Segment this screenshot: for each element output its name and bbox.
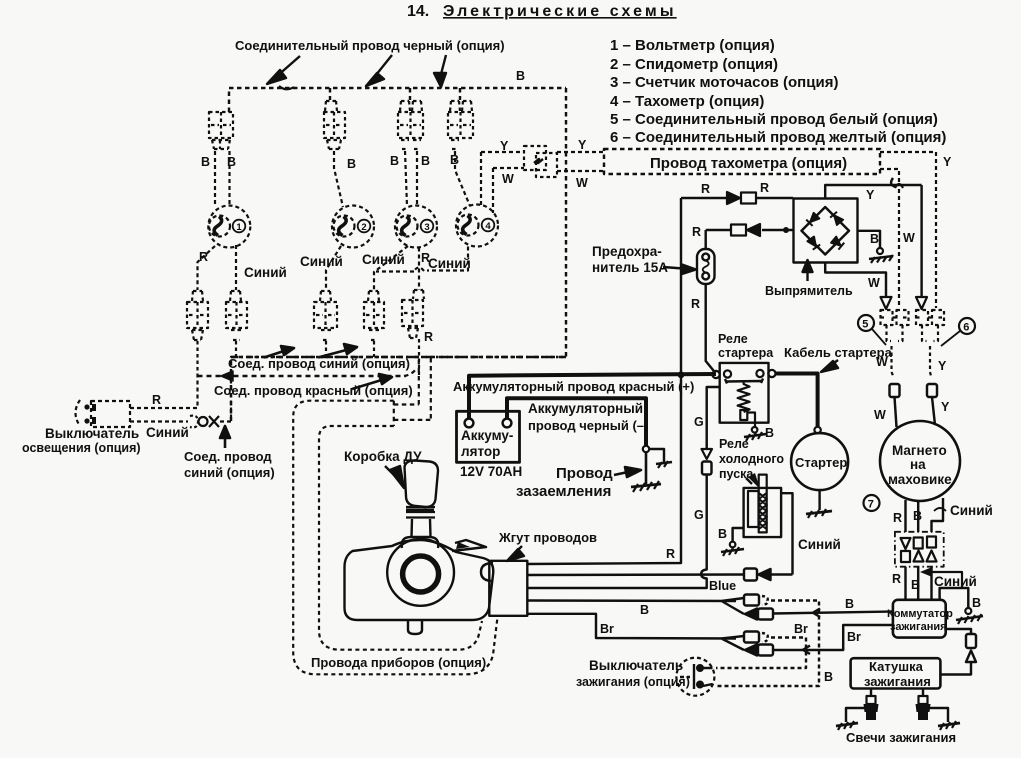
gauge 4 filament [463, 216, 471, 235]
bottom tab [408, 620, 422, 634]
svg-text:зажигания: зажигания [864, 674, 931, 689]
wire: gauge2 blue lead down [326, 246, 341, 290]
svg-text:14.: 14. [407, 3, 429, 20]
svg-text:Реле: Реле [719, 437, 749, 451]
gauge 3 (hour meter) dashed circle [395, 206, 437, 248]
W dashed hop over solid Y line [895, 184, 903, 188]
ground (right plug) [938, 721, 960, 730]
svg-text:Y: Y [938, 359, 947, 373]
connector 6 (yellow lead) halves [916, 310, 944, 378]
svg-text:стартера: стартера [718, 346, 774, 360]
wire: magneto B output [917, 501, 919, 532]
starter relay box [720, 363, 769, 423]
ground junction circle [643, 446, 649, 452]
wire: magneto blue output [932, 498, 944, 532]
tach connector latch mark [534, 159, 543, 163]
svg-text:Y: Y [941, 400, 950, 414]
svg-text:R: R [701, 182, 710, 196]
svg-text:Провод тахометра (опция): Провод тахометра (опция) [650, 155, 847, 172]
svg-text:холодного: холодного [719, 452, 784, 466]
svg-text:B: B [421, 154, 430, 168]
svg-text:2 – Спидометр (опция): 2 – Спидометр (опция) [610, 56, 778, 73]
Y solid arrowhead [916, 297, 927, 309]
wire: gauge2 B wire [334, 151, 343, 207]
wire: Y solid down to connector 6 [920, 185, 922, 297]
red bus left arrowhead [221, 371, 233, 381]
svg-text:B: B [845, 597, 854, 611]
rect + diode up (middle element) [914, 538, 924, 562]
ground (rectifier B) [869, 248, 893, 263]
svg-text:Br: Br [794, 622, 808, 636]
wire: B from rectifier right to ground [858, 231, 881, 248]
circled 5 with pointer [858, 315, 886, 345]
svg-text:Синий: Синий [950, 503, 993, 518]
svg-text:B: B [227, 155, 236, 169]
svg-text:W: W [502, 172, 514, 186]
svg-text:5 – Соединительный провод белы: 5 – Соединительный провод белый (опция) [610, 111, 938, 128]
wheel hub bell [402, 537, 439, 548]
wire: B dashed to ignition switch [716, 601, 819, 687]
svg-text:B: B [824, 670, 833, 684]
wire: ground stem [645, 452, 648, 484]
lighting switch contacts [84, 404, 96, 424]
svg-text:G: G [694, 508, 704, 522]
wire: W from tach box right [880, 169, 899, 308]
wire: G lead from relay [707, 387, 720, 449]
rectifier diodes [806, 212, 844, 250]
svg-text:W: W [868, 276, 880, 290]
rect + diode up (right element) [927, 537, 937, 562]
svg-text:R: R [691, 297, 700, 311]
wire: commutator B ground lead [940, 588, 969, 608]
gauge 1 number circle 1 [233, 220, 246, 233]
svg-text:4 – Тахометр (опция): 4 – Тахометр (опция) [610, 93, 764, 110]
wire: W from gauge4 to tach connector [493, 167, 524, 169]
svg-text:Аккуму-: Аккуму- [461, 428, 513, 443]
label arrow Синий lower [929, 572, 962, 588]
svg-text:Br: Br [600, 622, 614, 636]
svg-text:6: 6 [963, 322, 969, 334]
wire: red bus (dashed) [198, 375, 407, 377]
svg-text:лятор: лятор [461, 444, 500, 459]
bullet connector (coil lead) [940, 634, 976, 675]
wire: Y from gauge4 to tach connector [481, 151, 524, 153]
lighting switch (Выключатель освещения) [76, 400, 131, 427]
instrument leads dashed boundary (outer) [293, 401, 497, 675]
svg-text:G: G [694, 415, 704, 429]
G bullet connector [702, 462, 712, 475]
wire: Y solid into magneto [932, 397, 935, 425]
svg-text:Аккумуляторный провод красный: Аккумуляторный провод красный (+) [453, 379, 694, 394]
ground branch arm [649, 449, 664, 462]
svg-text:Синий: Синий [362, 252, 405, 267]
connector pair B row1 (to dashed) [744, 595, 768, 606]
gauge 1 (voltmeter) dashed circle [208, 206, 250, 248]
wire: cold start blue lead (Синий) [781, 493, 792, 574]
wire: gauge1 B wires [215, 151, 230, 206]
Br junction arrowhead [803, 646, 810, 655]
gauge 2 filament [339, 217, 347, 236]
junction dot (+) R [678, 371, 685, 378]
wire: Y solid from rectifier top [825, 185, 921, 199]
svg-text:R: R [760, 181, 769, 195]
svg-text:Предохра-: Предохра- [592, 244, 662, 259]
svg-text:3 – Счетчик моточасов (опция): 3 – Счетчик моточасов (опция) [610, 74, 838, 91]
diode symbol on lower R wire [731, 224, 760, 236]
svg-text:12V 70АН: 12V 70АН [460, 464, 522, 479]
svg-text:1: 1 [236, 222, 242, 233]
connector (gauge 4 top) [448, 101, 473, 149]
svg-text:Синий: Синий [244, 265, 287, 280]
instrument leads dashed boundary (inner rounded) [319, 426, 482, 650]
svg-text:пуска: пуска [719, 467, 754, 481]
svg-text:B: B [640, 603, 649, 617]
svg-text:6 – Соединительный провод желт: 6 – Соединительный провод желтый (опция) [610, 129, 946, 146]
junction dot lower R at rectifier [783, 227, 789, 233]
legend list items 1-6 [610, 37, 946, 146]
svg-text:Выпрямитель: Выпрямитель [765, 284, 853, 298]
svg-text:B: B [765, 426, 774, 440]
svg-text:B: B [913, 509, 922, 523]
relay contact bar [725, 379, 763, 384]
wire: left plug ground [846, 708, 866, 722]
svg-text:4: 4 [485, 221, 491, 232]
harness block [489, 561, 527, 616]
svg-text:B: B [972, 596, 981, 610]
svg-text:B: B [347, 157, 356, 171]
diode symbol on upper R wire [727, 192, 756, 204]
gauge 4 number circle 4 [482, 219, 495, 232]
circled 7 [864, 495, 880, 511]
wire: gauge4 W lead [492, 168, 494, 213]
svg-text:R: R [424, 330, 433, 344]
svg-text:Синий: Синий [428, 256, 471, 271]
connector c4 (gauge3 blue lower) [364, 291, 384, 357]
magneto flywheel circle [880, 421, 960, 501]
wire: Blue line from harness through bullet [527, 573, 793, 576]
svg-text:1 – Вольтметр (опция): 1 – Вольтметр (опция) [610, 37, 775, 54]
svg-text:2: 2 [361, 222, 366, 233]
relay coil [738, 381, 750, 420]
svg-text:7: 7 [868, 499, 874, 511]
svg-text:B: B [450, 153, 459, 167]
wire: lower R wire to rectifier [706, 229, 793, 231]
wire: commutator to coil via bullet [946, 629, 971, 634]
ground (cold start B) [721, 542, 744, 556]
svg-text:Y: Y [578, 138, 587, 152]
wire: left R vertical (to + junction) [680, 198, 682, 375]
wire: W from rectifier bottom [825, 263, 886, 298]
wire: coil to left spark plug [870, 689, 872, 697]
wire: gauge3 R lead down [418, 248, 420, 291]
svg-text:Y: Y [866, 188, 875, 202]
body top-right beak [452, 540, 486, 551]
circled 6 with pointer [941, 318, 975, 346]
Y junction tick [891, 178, 896, 187]
svg-text:маховике: маховике [888, 472, 952, 487]
svg-text:Провод: Провод [556, 465, 613, 482]
svg-text:R: R [666, 547, 675, 561]
wire: battery black (-) lead [507, 398, 646, 446]
connector pair B row2 (solid through) [745, 609, 773, 620]
svg-text:синий (опция): синий (опция) [184, 465, 275, 480]
cold start relay plunger [748, 475, 767, 533]
svg-text:Соед. провод: Соед. провод [184, 449, 272, 464]
bullet connector pair on blue lead [190, 416, 219, 428]
svg-text:Выключатель: Выключатель [589, 658, 683, 673]
right connector notch [481, 563, 493, 581]
ground (relay B) [744, 427, 766, 441]
ground (starter) [806, 509, 832, 518]
wire: gauge4 B wire [455, 151, 470, 206]
wire: magneto R output [904, 500, 906, 532]
starter cable terminal circle [814, 427, 820, 433]
wire: gauge3 B wires [405, 151, 417, 206]
svg-text:нитель 15А: нитель 15А [592, 260, 668, 275]
connector 5 (white lead) halves [881, 310, 909, 378]
svg-text:Соединительный провод черный (: Соединительный провод черный (опция) [235, 38, 505, 53]
connector pair Br row2 (solid through) [745, 645, 773, 656]
wire: fuse upper lead [704, 230, 706, 249]
battery box [457, 411, 520, 462]
wire: gauge1 blue lead down [235, 245, 237, 290]
wire: Y connector to tach box [557, 151, 604, 153]
ignition coil box (Катушка зажигания) [851, 658, 941, 688]
svg-text:зажигания: зажигания [890, 621, 947, 633]
wire: light switch blue lead [130, 376, 231, 422]
svg-text:Жгут проводов: Жгут проводов [498, 530, 597, 545]
fuse 15A body [697, 249, 715, 284]
gauge 3 number circle 3 [421, 220, 434, 233]
svg-text:Магнето: Магнето [892, 443, 947, 458]
bullet connector W lead [890, 384, 900, 397]
label arrow 1 to black bus [267, 56, 300, 89]
svg-text:провод черный (–): провод черный (–) [528, 418, 648, 433]
tach lead box (Провод тахометра) [604, 149, 880, 174]
wheel inner ring [403, 556, 439, 592]
connector c2 (gauge1 blue lower) [226, 291, 247, 357]
connector c5 (gauge3 R lower) [402, 290, 424, 376]
wire: coil to right spark plug [922, 689, 924, 697]
svg-text:B: B [870, 232, 879, 246]
ground (left plug) [836, 721, 858, 730]
wire: blue bus (dash-dot) [231, 356, 566, 358]
relay terminals [712, 370, 775, 378]
wire: gauge3 blue lead down [374, 246, 408, 290]
remote control handle grip [405, 461, 439, 508]
gauge 2 number circle 2 [358, 220, 371, 233]
wire: red bus right corner down to harness junction [394, 358, 431, 426]
svg-text:на: на [910, 457, 926, 472]
wire: harness B lead with fork [527, 598, 744, 614]
gauge 2 (speedometer) dashed circle [332, 206, 374, 248]
svg-text:5: 5 [862, 319, 868, 331]
spark plug right [916, 696, 931, 720]
svg-text:R: R [152, 393, 161, 407]
ground (battery minus) [631, 481, 661, 492]
wire: gauge4 Y lead [480, 152, 482, 207]
svg-text:зажигания (опция): зажигания (опция) [576, 675, 690, 689]
wire: Br solid to commutator [773, 625, 893, 650]
svg-text:B: B [911, 578, 920, 592]
wire: starter cable (thick) [776, 374, 818, 428]
wire: G lead down to harness (hop over blue) [527, 475, 707, 589]
wire: Y from tach box right [880, 152, 936, 308]
svg-text:Синий: Синий [300, 254, 343, 269]
svg-text:Кабель стартера: Кабель стартера [784, 345, 893, 360]
svg-text:Аккумуляторный: Аккумуляторный [528, 401, 643, 416]
svg-text:R: R [893, 511, 902, 525]
wheel outer circle [387, 539, 454, 606]
starter motor circle [791, 433, 848, 490]
label arrow 2 to black bus [366, 55, 392, 86]
connector c1 (gauge1 R lower) [187, 291, 208, 376]
svg-text:Реле: Реле [718, 332, 748, 346]
spark plug left [864, 696, 879, 720]
svg-text:Катушка: Катушка [869, 659, 924, 674]
wire: Br dashed to ignition switch [716, 638, 806, 669]
ignition switch dashed circle [676, 658, 714, 696]
wire: upper R wire to rectifier [681, 197, 793, 199]
wire: harness R lead [527, 375, 681, 564]
connector pair Br row1 (to dashed) [744, 632, 768, 643]
svg-text:Синий: Синий [934, 574, 977, 589]
title: 14. Электрические схемы [407, 3, 677, 20]
svg-text:B: B [390, 154, 399, 168]
svg-text:B: B [718, 527, 727, 541]
wires below CDI block into commutator [906, 567, 932, 600]
svg-text:освещения (опция): освещения (опция) [22, 441, 141, 455]
gauge 1 filament [214, 217, 222, 236]
ignition unit box (Коммутатор зажигания) [893, 600, 946, 638]
svg-text:Провода приборов (опция): Провода приборов (опция) [311, 655, 486, 670]
wire: harness Br lead [527, 614, 744, 650]
svg-text:3: 3 [424, 222, 429, 233]
svg-text:W: W [576, 176, 588, 190]
bullet connector on Blue [744, 569, 771, 581]
CDI diode block (dash-dot box) [895, 532, 944, 567]
wire: W solid into magneto [895, 397, 897, 427]
rectifier bridge outer square [794, 199, 858, 263]
connector c3 (gauge2 blue lower) [314, 291, 337, 357]
svg-text:Коммутатор: Коммутатор [887, 608, 953, 620]
cold start relay box [744, 488, 782, 537]
battery terminals [465, 419, 512, 428]
tach interlock connector [524, 146, 557, 177]
svg-text:B: B [201, 155, 210, 169]
label arrow 3 to black bus [434, 55, 446, 87]
W solid arrowhead [881, 297, 892, 309]
gauge 4 (tachometer) dashed circle [456, 205, 498, 247]
wire: battery red (+) lead [469, 374, 716, 419]
ignition switch contacts [680, 664, 713, 689]
svg-text:Синий: Синий [798, 537, 841, 552]
svg-text:Синий: Синий [146, 425, 189, 440]
wire: light switch R lead [130, 376, 198, 408]
svg-text:Выключатель: Выключатель [45, 426, 139, 441]
wire: relay coil to B ground [747, 413, 755, 428]
wire: right plug ground [928, 708, 948, 722]
wire: W connector to tach box [557, 170, 604, 172]
connector (gauge 3 top) [398, 101, 423, 149]
ground (commutator B) [956, 608, 983, 624]
diode down + rect (left element) [901, 538, 911, 562]
wire: starter ground stem [818, 490, 820, 510]
svg-text:R: R [692, 225, 701, 239]
connector (gauge 1 top) [209, 112, 233, 149]
rectifier diamond [802, 207, 850, 255]
wire: fuse lower lead R to relay [706, 284, 716, 373]
G arrowhead connector [702, 449, 713, 459]
svg-text:Свечи зажигания: Свечи зажигания [846, 730, 956, 745]
bullet connector Y lead [927, 384, 937, 397]
svg-text:Электрические схемы: Электрические схемы [443, 3, 677, 20]
wire: gauge4 blue lead down-left with hop [376, 247, 468, 272]
handle stem [412, 519, 431, 537]
svg-text:Y: Y [943, 155, 952, 169]
wire: B solid to commutator [773, 612, 893, 614]
svg-text:W: W [874, 408, 886, 422]
svg-text:Blue: Blue [709, 579, 736, 593]
wire: gauge1 R lead down [198, 246, 216, 290]
svg-text:зазаемления: зазаемления [516, 483, 611, 500]
gauge 3 filament [402, 217, 410, 236]
handle hatch band [406, 507, 435, 518]
control unit body [345, 540, 494, 620]
connector (gauge 2 top) [324, 101, 345, 149]
svg-text:Br: Br [847, 630, 861, 644]
B junction arrowhead [813, 609, 820, 618]
svg-text:R: R [892, 572, 901, 586]
wire: top B bus (black connecting wire, dashed) [229, 88, 566, 421]
svg-text:B: B [516, 69, 525, 83]
svg-text:W: W [903, 231, 915, 245]
wire: cold start B ground lead [733, 528, 744, 542]
svg-text:Стартер: Стартер [795, 455, 847, 470]
svg-text:Соед. провод красный (опция): Соед. провод красный (опция) [214, 383, 413, 398]
small ground flag on branch [656, 461, 672, 468]
svg-text:R: R [199, 250, 208, 264]
